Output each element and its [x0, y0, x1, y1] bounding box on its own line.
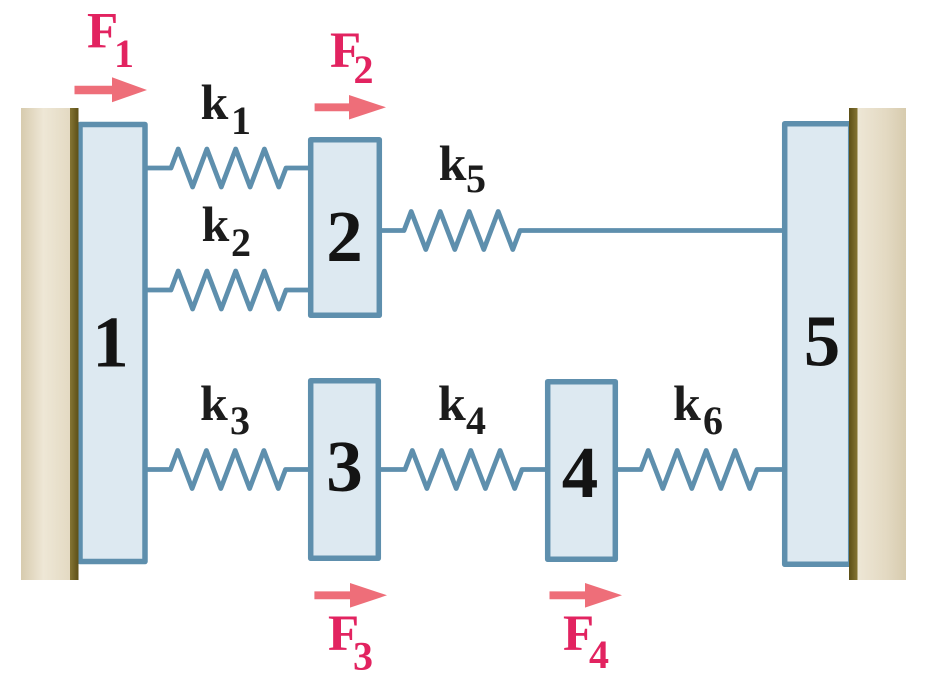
mass 2 [311, 140, 380, 316]
svg-text:k: k [439, 135, 467, 191]
svg-text:3: 3 [353, 634, 373, 679]
force F3 arrow [314, 583, 387, 608]
spring k5 with long wire to mass 5 [382, 212, 782, 250]
force F1 arrow [75, 77, 148, 102]
svg-text:4: 4 [562, 432, 599, 513]
mass 4 [548, 382, 616, 560]
mass 3 [311, 381, 379, 559]
mass 5 [785, 124, 851, 565]
spring k6 [618, 451, 782, 489]
svg-text:2: 2 [231, 220, 251, 265]
left wall [21, 108, 71, 580]
svg-text:k: k [673, 375, 701, 431]
svg-text:k: k [438, 375, 466, 431]
svg-text:1: 1 [92, 302, 129, 383]
svg-text:2: 2 [326, 196, 363, 277]
svg-text:k: k [202, 196, 230, 252]
svg-text:4: 4 [466, 398, 486, 443]
svg-text:k: k [201, 74, 229, 130]
svg-text:5: 5 [466, 156, 486, 201]
force F2 arrow [315, 95, 386, 120]
svg-text:5: 5 [804, 301, 841, 382]
svg-text:6: 6 [703, 398, 723, 443]
spring k1 [145, 149, 308, 187]
spring k2 [145, 271, 308, 309]
svg-text:3: 3 [230, 398, 250, 443]
right wall anchor bar [849, 108, 858, 580]
spring k4 [381, 451, 545, 489]
right wall [857, 108, 906, 580]
left wall anchor bar [70, 108, 79, 580]
svg-text:4: 4 [589, 632, 609, 677]
svg-text:k: k [200, 375, 228, 431]
spring k3 [145, 451, 308, 489]
mass 1 [80, 125, 145, 562]
svg-text:3: 3 [326, 426, 363, 507]
force F4 arrow [550, 583, 623, 608]
svg-text:1: 1 [231, 98, 251, 143]
svg-text:2: 2 [354, 47, 374, 92]
svg-text:1: 1 [114, 31, 134, 76]
